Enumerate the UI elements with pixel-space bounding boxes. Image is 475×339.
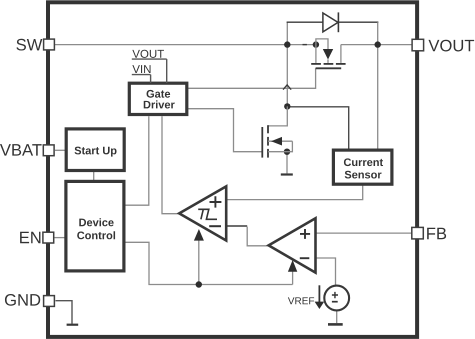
node NFET source junction — [284, 149, 290, 155]
pin FB — [412, 227, 446, 239]
M2 body stub with arrow — [268, 140, 292, 142]
wire enable arrow shaft to error amp — [292, 272, 294, 285]
node NFET drain junction — [284, 103, 290, 109]
M1 body connection jog — [316, 39, 328, 49]
VREF label — [288, 297, 314, 304]
wire VBAT pad to start up — [55, 149, 66, 151]
block Device Control — [66, 181, 124, 271]
U1 plus label — [210, 196, 222, 207]
wire device control enable output — [125, 242, 292, 284]
pin VOUT — [412, 39, 474, 51]
enable arrow into comparator U1 — [194, 229, 204, 241]
M2 body to source link — [287, 141, 292, 152]
M1 left terminal — [315, 45, 317, 63]
wire GND pad to ground symbol — [56, 301, 73, 324]
M1 channel segments — [311, 63, 321, 65]
wire enable arrow shaft to comparator — [198, 240, 200, 285]
node VOUT-diode junction — [375, 41, 381, 47]
M1 body diode arrow — [323, 49, 333, 60]
pin GND — [5, 294, 54, 306]
wire EN pad to device control — [55, 237, 67, 239]
U1 minus label — [209, 225, 221, 227]
wire diode cathode lead — [338, 21, 378, 23]
M1 body diode link — [327, 60, 329, 63]
IC boundary — [48, 2, 417, 337]
node SW-diode junction — [284, 41, 290, 47]
wire dark dash on SW rail — [303, 44, 307, 46]
wire diode branch left vertical — [286, 22, 288, 44]
wire gate driver bottom pin2 to comparator output — [162, 116, 179, 214]
wire error amp minus input to VREF source — [316, 258, 336, 286]
wire VOUT node down to current sensor right input — [377, 45, 379, 150]
diode D1 rectifier — [323, 12, 339, 32]
wire NFET source to ground — [286, 152, 288, 174]
ground bar under VREF source — [328, 323, 343, 326]
wire error amp output to comparator minus — [247, 227, 268, 246]
block Start Up — [66, 129, 124, 171]
error amplifier U2 — [269, 218, 316, 272]
net label VIN above gate driver — [132, 65, 150, 73]
wire diode anode lead — [287, 21, 323, 23]
U2 minus label — [300, 257, 310, 259]
wire SW rail (SW pad to PMOS left) — [55, 44, 316, 46]
wire FB pad to error amp plus input — [316, 232, 412, 234]
wire VREF source to ground — [336, 310, 338, 323]
wire gate driver bottom pin1 to device control — [125, 116, 148, 205]
M1 right terminal — [340, 45, 342, 63]
transistor M1 synchronous rectifier PFET — [311, 39, 345, 68]
wire SW node vertical down to NFET drain — [286, 45, 288, 107]
voltage source VREF — [324, 286, 349, 311]
block Current Sensor — [333, 150, 392, 184]
M1 gate bar — [316, 67, 342, 69]
wire start up to device control — [93, 171, 95, 182]
M2 channel segments — [267, 125, 269, 133]
pin EN — [20, 232, 54, 243]
transistor M2 low-side NFET — [262, 106, 292, 157]
node enable wire junction — [196, 281, 202, 287]
M2 source stub — [268, 151, 287, 153]
ground bar under NFET — [281, 173, 293, 175]
pin VBAT — [0, 144, 54, 156]
M2 gate bar — [261, 127, 263, 158]
wire drain node to current sensor left input — [287, 107, 348, 149]
wire crossover hop mark — [283, 85, 290, 89]
comparator U1 hysteretic — [179, 186, 226, 240]
M2 drain lead — [268, 106, 287, 126]
pin SW — [16, 39, 54, 51]
wire diode branch right vertical — [377, 22, 379, 44]
wire VOUT rail (PMOS right to VOUT pad) — [341, 44, 412, 46]
ground bar under GND pin — [67, 324, 79, 326]
block Gate Driver — [129, 83, 187, 114]
wire comparator minus input stub — [226, 225, 247, 227]
wire gate driver out2 to NFET gate — [188, 109, 262, 152]
U2 plus label — [300, 229, 310, 239]
net label VOUT above gate driver — [132, 50, 164, 58]
wire current sensor output to comparator plus input — [226, 184, 363, 200]
enable arrow into error amp U2 — [288, 260, 297, 272]
U1 hysteresis glyph — [198, 209, 217, 219]
VREF arrow — [318, 285, 320, 302]
wire gate driver out1 to PFET gate — [188, 68, 315, 88]
node PFET left terminal junction — [313, 41, 319, 47]
